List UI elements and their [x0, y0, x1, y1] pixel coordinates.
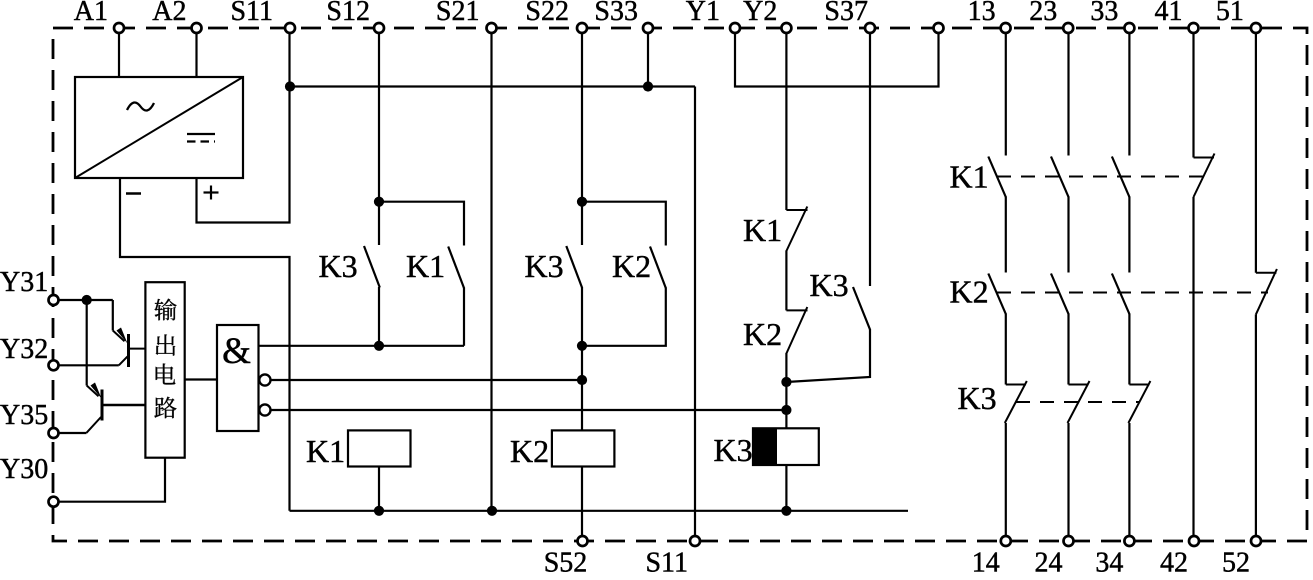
wire column 51/52 upper — [1255, 33, 1257, 273]
svg-text:K3: K3 — [525, 248, 564, 284]
svg-text:K3: K3 — [319, 248, 358, 284]
wire column 13/14 upper — [1005, 33, 1007, 156]
transistor Q1 — [113, 300, 146, 367]
relay coil K2 — [510, 430, 614, 469]
svg-text:13: 13 — [968, 0, 996, 27]
terminal 42 (bottom) — [1160, 536, 1199, 579]
svg-text:S21: S21 — [436, 0, 480, 27]
wire column 51/52 lower — [1255, 314, 1257, 536]
svg-text:23: 23 — [1029, 0, 1057, 27]
contact K1 (NO) — [448, 247, 464, 289]
contact K1 row (NO) col 33/34 — [1112, 157, 1130, 198]
junction S22 branch — [577, 197, 587, 207]
wire column 23/24 upper — [1067, 33, 1069, 156]
wire column 13/14 mid2 — [1005, 314, 1007, 385]
wire output circuit to AND gate — [185, 378, 217, 380]
terminal S12 — [326, 0, 384, 33]
wire node to coil — [785, 382, 787, 428]
AND gate mid output bubble — [259, 374, 270, 385]
svg-text:K3: K3 — [714, 432, 753, 468]
wire Y2 column — [785, 33, 787, 211]
wire AND mid output — [271, 379, 583, 381]
wire S11 bus — [290, 85, 695, 87]
svg-text:34: 34 — [1095, 548, 1123, 576]
svg-text:K3: K3 — [958, 380, 997, 416]
svg-text:K1: K1 — [406, 248, 445, 284]
terminal 13 — [968, 0, 1011, 33]
wire column 41/42 upper — [1192, 33, 1194, 158]
wire Y30 to output circuit — [58, 458, 165, 502]
terminal 14 (bottom) — [972, 536, 1011, 579]
terminal S37 — [824, 0, 875, 33]
contact K2 row (NO) col 23/24 — [1051, 274, 1069, 315]
contact K2 row (NO) col 33/34 — [1112, 274, 1130, 315]
junction K3 bottom bus — [781, 506, 791, 516]
mechanical linkage row K3 — [1016, 401, 1140, 403]
junction AND bottom output node — [781, 405, 791, 415]
AND gate bottom output bubble — [259, 404, 270, 415]
wire column 33/34 mid2 — [1128, 314, 1130, 385]
terminal 33 — [1090, 0, 1134, 33]
wire column 13/14 lower — [1005, 423, 1007, 537]
svg-text:A2: A2 — [152, 0, 186, 27]
wire A2 to power supply — [195, 33, 197, 78]
contact K3 (NO) — [853, 287, 870, 330]
terminal Y30 — [0, 454, 59, 507]
contact K2 row (NO) col 13/14 — [988, 274, 1006, 315]
wire branch to K1 contact — [379, 202, 464, 246]
wire K2 contact lower lead — [582, 288, 666, 346]
terminal S22 — [525, 0, 587, 33]
terminal S11 — [230, 0, 295, 33]
svg-text:&: & — [222, 331, 251, 372]
terminal A2 — [152, 0, 201, 33]
output circuit box (输出电路) — [145, 282, 184, 458]
svg-text:14: 14 — [972, 548, 1000, 576]
wire power supply minus — [120, 178, 290, 511]
svg-text:K1: K1 — [950, 159, 989, 195]
junction AND-gate mid output — [577, 375, 587, 385]
terminal S21 — [436, 0, 497, 33]
wire K3 contact to feedback node — [786, 329, 870, 382]
terminal S33 — [594, 0, 653, 33]
svg-text:K1: K1 — [743, 212, 782, 248]
junction K2-coil node — [577, 341, 587, 351]
wire between K1 and K2 NC — [785, 251, 787, 311]
svg-text:42: 42 — [1160, 548, 1188, 576]
svg-text:Y30: Y30 — [0, 454, 48, 485]
wire power supply plus — [197, 33, 290, 223]
wire K3 coil to bus — [785, 465, 787, 511]
terminal 23 — [1029, 0, 1073, 33]
contact K2 (NC) — [786, 307, 807, 354]
wire column 23/24 mid2 — [1067, 314, 1069, 385]
transistor Q2 — [87, 383, 146, 433]
AND gate U1 — [217, 325, 259, 431]
terminal Y1 — [686, 0, 740, 33]
svg-text:S37: S37 — [824, 0, 868, 27]
svg-text:S12: S12 — [326, 0, 370, 27]
wire K1 coil to bus — [378, 467, 380, 511]
wire column 33/34 mid1 — [1128, 197, 1130, 273]
relay coil K1 — [306, 430, 411, 469]
junction S11 bus — [285, 81, 295, 91]
wire K3 second lower lead — [581, 287, 583, 346]
mechanical linkage row K2 — [997, 292, 1268, 294]
svg-text:S52: S52 — [544, 548, 588, 576]
wire bus to bottom S11 terminal — [694, 87, 696, 537]
svg-text:Y35: Y35 — [0, 400, 48, 431]
svg-text:24: 24 — [1035, 548, 1063, 576]
wire column 41/42 lower — [1192, 197, 1194, 537]
wire K2 NC lower lead — [785, 353, 787, 382]
contact K3 row (NC) col 33/34 — [1128, 381, 1150, 423]
svg-text:Y2: Y2 — [743, 0, 777, 27]
wire S22 to K2 coil — [581, 346, 583, 431]
wire S37 column — [869, 33, 871, 287]
contact K3 second (NO) — [566, 246, 582, 288]
wire branch to K2 contact — [582, 202, 666, 246]
wire S22 column — [581, 33, 583, 246]
junction Y31 node — [82, 295, 92, 305]
terminal 34 (bottom) — [1095, 536, 1134, 579]
svg-text:A1: A1 — [74, 0, 108, 27]
svg-text:K2: K2 — [510, 433, 549, 469]
contact K1 row (NO) col 23/24 — [1051, 157, 1069, 198]
junction K1-coil node — [374, 341, 384, 351]
wire S33 column — [647, 33, 649, 87]
wire column 33/34 upper — [1128, 33, 1130, 156]
contact K2 (NO) — [650, 247, 666, 289]
wire column 23/24 lower — [1067, 423, 1069, 537]
junction S21 bottom bus — [487, 506, 497, 516]
contact K3 row (NC) col 13/14 — [1005, 381, 1027, 423]
svg-text:52: 52 — [1222, 548, 1250, 576]
contact K1 (NC) — [786, 207, 807, 252]
wire Y35 row — [58, 432, 87, 434]
relay coil K3 — [714, 428, 819, 468]
contact K3 (NO) — [364, 246, 380, 288]
svg-text:K1: K1 — [306, 433, 345, 469]
junction S33 bus — [643, 81, 653, 91]
svg-text:S11: S11 — [645, 548, 688, 576]
wire K1 contact lower lead — [463, 288, 465, 346]
junction K1 bottom bus — [374, 506, 384, 516]
terminal 52 (bottom) — [1222, 536, 1261, 579]
terminal Y31 — [0, 267, 59, 305]
wire K2 coil to S52 — [581, 467, 583, 537]
svg-text:Y32: Y32 — [0, 334, 48, 365]
power supply unit (AC/DC converter) — [75, 77, 243, 200]
terminal S52 (bottom) — [544, 536, 588, 579]
terminal 24 (bottom) — [1035, 536, 1074, 579]
wire S12 column — [378, 33, 380, 246]
svg-text:K3: K3 — [810, 267, 849, 303]
terminal A1 — [74, 0, 124, 33]
wire Y32 row — [58, 364, 119, 366]
wire A1 to power supply — [118, 33, 120, 78]
mechanical linkage row K1 — [997, 176, 1206, 178]
wire column 23/24 mid1 — [1067, 197, 1069, 273]
wire AND bottom output — [271, 409, 787, 411]
contact K1 row (NO) col 13/14 — [988, 157, 1006, 198]
wire column 33/34 lower — [1128, 423, 1130, 537]
svg-text:Y1: Y1 — [686, 0, 720, 27]
wire S21 column — [490, 33, 492, 511]
terminal Y35 — [0, 400, 59, 438]
svg-text:K2: K2 — [950, 274, 989, 310]
terminal Y32 — [0, 334, 59, 370]
terminal 41 — [1155, 0, 1199, 33]
svg-text:S11: S11 — [230, 0, 273, 27]
wire Y31 row — [58, 299, 113, 301]
svg-text:33: 33 — [1090, 0, 1118, 27]
svg-text:51: 51 — [1216, 0, 1244, 27]
junction S12 branch — [374, 197, 384, 207]
terminal 51 — [1216, 0, 1261, 33]
svg-text:K2: K2 — [612, 248, 651, 284]
svg-text:Y31: Y31 — [0, 267, 48, 298]
svg-text:S22: S22 — [525, 0, 569, 27]
wire bottom bus — [290, 510, 909, 512]
junction K3 feedback node — [781, 377, 791, 387]
svg-text:K2: K2 — [743, 316, 782, 352]
wire column 13/14 mid1 — [1005, 197, 1007, 273]
svg-text:S33: S33 — [594, 0, 638, 27]
wire Y31 node down — [86, 300, 88, 386]
wire Y1 loop to unnamed terminal — [735, 33, 939, 87]
terminal unnamed — [934, 23, 944, 33]
terminal Y2 — [743, 0, 791, 33]
contact K1 row (NC) col 41/42 — [1194, 154, 1215, 198]
contact K2 row (NC) col 51/52 — [1256, 269, 1277, 314]
wire K3 contact lower lead — [378, 287, 380, 346]
contact K3 row (NC) col 23/24 — [1068, 381, 1090, 423]
svg-text:41: 41 — [1155, 0, 1183, 27]
terminal S11 (bottom) — [645, 536, 700, 579]
wire AND top output — [259, 345, 464, 347]
